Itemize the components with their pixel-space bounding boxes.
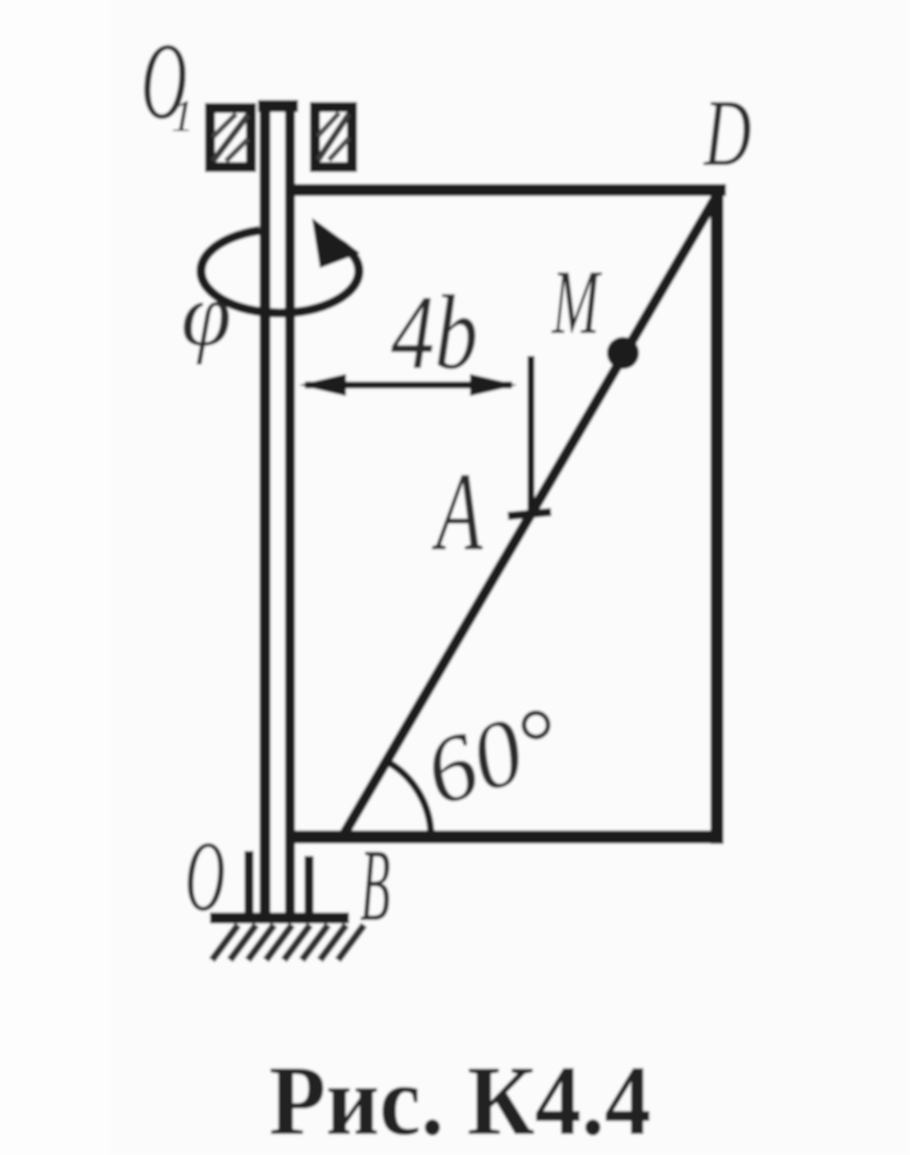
bearing hatch right block	[315, 107, 352, 167]
shaft left line	[260, 102, 271, 918]
svg-text:O: O	[185, 820, 225, 933]
tick at A	[508, 512, 551, 516]
svg-text:1: 1	[171, 90, 194, 141]
svg-text:A: A	[431, 450, 483, 574]
shaft right line	[285, 102, 295, 918]
svg-text:D: D	[703, 80, 751, 186]
svg-text:Рис. К4.4: Рис. К4.4	[269, 1045, 651, 1155]
point M dot	[607, 337, 639, 369]
60 degree arc	[388, 762, 431, 835]
svg-text:4b: 4b	[391, 274, 478, 391]
bearing hatch left block	[210, 108, 251, 167]
bottom bearing tick left	[245, 851, 254, 914]
label O1 (top bearing axis)	[141, 21, 194, 142]
rotation arrowhead	[312, 218, 360, 268]
frame right bar	[711, 184, 724, 844]
bottom bearing tick right	[305, 856, 314, 914]
dimension 4b arrow	[305, 382, 512, 389]
shaft top cap	[258, 100, 298, 112]
svg-text:φ: φ	[181, 264, 231, 365]
ground hatching	[212, 925, 364, 960]
svg-text:M: M	[551, 251, 602, 353]
rotation arrow phi (ellipse arc)	[201, 230, 359, 313]
frame top bar	[287, 184, 726, 196]
tie line from dimension to A	[528, 356, 535, 514]
rod BD diagonal	[344, 192, 719, 834]
ground line	[210, 913, 349, 924]
frame bottom bar	[287, 831, 723, 844]
svg-text:B: B	[360, 827, 390, 943]
